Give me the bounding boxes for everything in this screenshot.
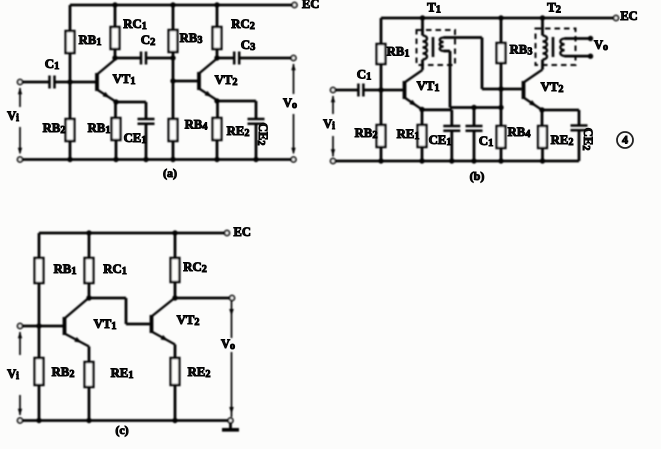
svg-text:RB2: RB2: [355, 126, 378, 141]
svg-text:RB2: RB2: [52, 365, 75, 380]
svg-text:RB3: RB3: [510, 42, 533, 57]
svg-text:RC1: RC1: [103, 262, 127, 277]
svg-text:Vi: Vi: [323, 117, 335, 132]
svg-text:VT2: VT2: [177, 313, 200, 328]
svg-text:C1: C1: [479, 133, 494, 149]
svg-text:T2: T2: [547, 0, 561, 16]
svg-text:RE2: RE2: [551, 133, 574, 148]
svg-text:C1: C1: [357, 66, 372, 82]
svg-text:CE1: CE1: [124, 131, 147, 146]
svg-text:Vo: Vo: [594, 38, 608, 53]
svg-text:RB1: RB1: [54, 262, 77, 277]
svg-text:RB1: RB1: [79, 33, 102, 48]
svg-text:EC: EC: [302, 0, 319, 11]
svg-text:RB1: RB1: [387, 44, 410, 59]
svg-text:Vo: Vo: [283, 96, 297, 111]
svg-text:Vo: Vo: [221, 337, 235, 352]
svg-text:EC: EC: [620, 9, 637, 23]
svg-text:(c): (c): [115, 423, 128, 437]
svg-text:RB3: RB3: [180, 31, 203, 46]
svg-text:Vi: Vi: [7, 109, 19, 124]
svg-text:CE1: CE1: [429, 133, 452, 148]
svg-text:VT1: VT1: [94, 317, 117, 332]
svg-text:RC2: RC2: [183, 260, 207, 275]
svg-text:4: 4: [622, 132, 628, 146]
svg-text:RB1: RB1: [88, 121, 111, 136]
svg-text:VT2: VT2: [541, 80, 564, 95]
svg-text:RC1: RC1: [123, 17, 147, 32]
svg-text:RB4: RB4: [185, 117, 208, 132]
svg-text:RE2: RE2: [188, 365, 211, 380]
svg-text:T1: T1: [427, 0, 441, 16]
svg-text:RC2: RC2: [231, 17, 255, 32]
svg-text:C3: C3: [241, 37, 256, 53]
svg-text:Vi: Vi: [7, 367, 19, 382]
svg-text:VT1: VT1: [113, 72, 136, 87]
svg-text:VT1: VT1: [417, 79, 440, 94]
svg-text:(a): (a): [163, 166, 177, 180]
svg-text:RE2: RE2: [227, 124, 250, 139]
svg-text:RB2: RB2: [43, 121, 66, 136]
svg-text:CE2: CE2: [580, 128, 595, 151]
svg-text:RE1: RE1: [111, 366, 134, 381]
svg-text:EC: EC: [234, 225, 251, 239]
svg-text:(b): (b): [470, 169, 485, 183]
svg-text:C2: C2: [141, 32, 156, 48]
svg-text:CE2: CE2: [255, 123, 270, 146]
svg-text:RE1: RE1: [397, 127, 420, 142]
svg-text:RB4: RB4: [508, 125, 531, 140]
svg-text:C1: C1: [45, 56, 60, 72]
svg-text:VT2: VT2: [215, 73, 238, 88]
